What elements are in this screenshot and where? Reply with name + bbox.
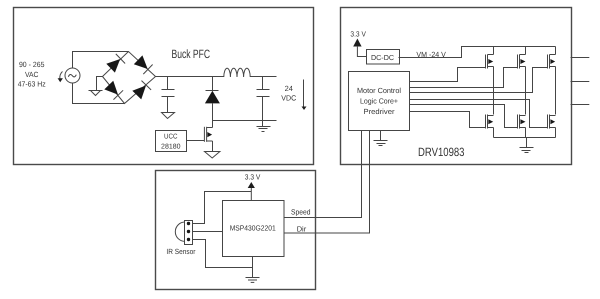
transistor Q1 [204,121,212,152]
ground C1 [162,113,175,119]
svg-text:UCC: UCC [164,134,178,141]
svg-text:Speed: Speed [291,208,311,217]
wire bridge negative [97,77,103,91]
wire phase V [525,67,527,115]
wire gate high V [410,68,518,88]
bridge rectifier diamond [103,52,156,104]
ground bridge DRV [520,138,534,153]
svg-text:Predriver: Predriver [364,107,396,116]
block DRV10983 enclosure [341,8,572,165]
wire VM rail [399,47,556,58]
wire bus negative [494,137,556,139]
svg-text:3.3 V: 3.3 V [245,173,260,182]
wire sensor vcc [193,192,252,224]
capacitor C2 [257,77,270,121]
wire Speed [284,131,362,218]
label 90 - 265 VAC 47-63 Hz [18,60,46,89]
diode D2 [133,55,152,74]
diode D5 freewheel [205,77,220,121]
svg-text:VDC: VDC [281,94,297,103]
diode D3 [104,80,123,99]
svg-text:DC-DC: DC-DC [371,53,394,62]
wire UCC to gate [187,140,205,142]
svg-text:47-63 Hz: 47-63 Hz [18,80,46,89]
wire sensor out [193,231,223,233]
svg-text:24: 24 [285,84,293,93]
ground bridge [89,91,103,96]
wire phase U [493,67,495,115]
output voltage arrow [302,80,307,111]
diode D4 [132,81,151,100]
diode D1 [106,54,125,73]
svg-text:3.3 V: 3.3 V [350,29,366,38]
svg-text:Motor Control: Motor Control [357,86,401,95]
wire gate low U [410,112,486,128]
svg-text:Buck PFC: Buck PFC [172,47,211,61]
wire phase W [555,67,557,115]
svg-text:MSP430G2201: MSP430G2201 [230,224,276,233]
IR sensor [175,221,192,245]
svg-text:90 - 265: 90 - 265 [19,60,45,69]
wire DC rail left [156,76,224,78]
label 24 VDC [281,84,297,103]
block Buck PFC enclosure [14,8,314,165]
AC input arrow [58,72,63,83]
wire gate low V [410,105,518,128]
svg-text:DRV10983: DRV10983 [418,145,465,159]
wire AC bottom [73,83,125,104]
ground MSP [246,278,260,283]
wire AC top [73,52,129,69]
wire Dir [284,131,370,234]
wire gate low W [410,100,548,128]
ground Q1 [205,152,220,159]
svg-text:VAC: VAC [25,70,39,79]
wire gate high U [410,68,486,82]
transistor Q7 low W [548,115,556,138]
wire DC rail right [251,76,277,78]
transistor Q5 low U [486,115,494,138]
transistor Q4 high W [548,47,556,69]
wire sensor gnd [193,240,253,268]
transistor Q2 high U [486,47,494,69]
block Motor Control Logic Core+ Predriver [349,72,410,131]
block MSP430G2201 [223,201,285,257]
transistor Q6 low V [518,115,526,138]
wire 3.3V to DC-DC [357,46,366,57]
ground motor block [374,131,388,146]
wire phase output W [571,104,590,106]
block DC-DC [367,50,400,65]
wire output return [213,120,277,122]
transistor Q3 high V [518,47,526,69]
ground C2 [257,121,271,132]
wire MSP gnd [252,257,254,278]
svg-text:28180: 28180 [161,143,181,150]
wire phase output V [571,81,590,83]
svg-text:Logic Core+: Logic Core+ [360,97,398,106]
wire gate high W [410,68,548,93]
wire 3.3V to MSP [250,188,252,201]
inductor L1 [224,68,250,77]
power 3.3V arrow sensor [248,182,255,188]
power 3.3V arrow [353,39,361,47]
AC source V1 [65,68,80,83]
capacitor C1 [162,77,175,113]
block UCC28180 [156,131,187,152]
wire phase output U [571,57,590,59]
block sensor enclosure [156,171,316,290]
svg-text:IR Sensor: IR Sensor [166,247,195,256]
svg-text:Dir: Dir [297,225,307,234]
